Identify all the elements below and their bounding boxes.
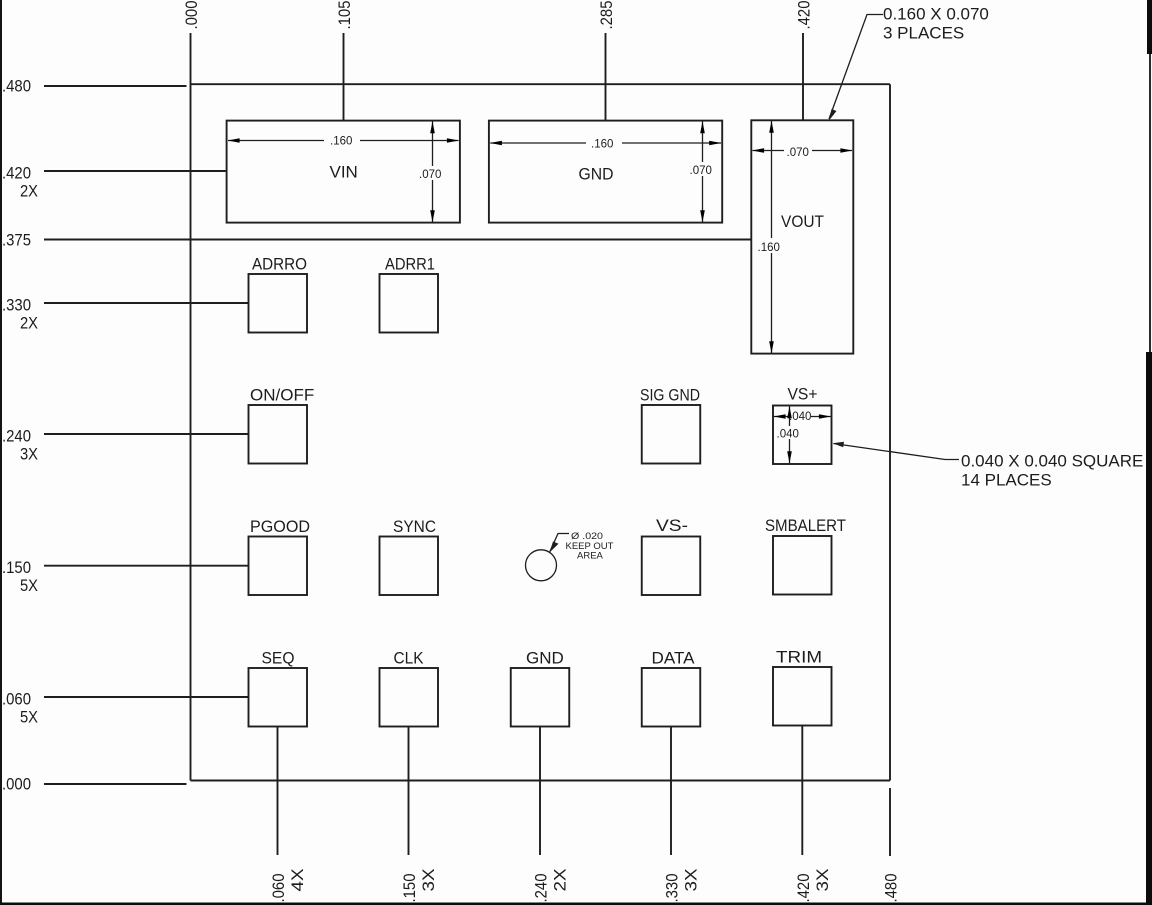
svg-text:3X: 3X: [20, 445, 38, 464]
svg-text:.160: .160: [330, 136, 352, 148]
node .420 top extension: [802, 33, 804, 120]
svg-text:.105: .105: [335, 1, 354, 30]
svg-text:.420: .420: [2, 164, 31, 183]
dimension .160 VOUT: [756, 121, 782, 354]
svg-text:.285: .285: [597, 1, 616, 30]
svg-text:2X: 2X: [20, 314, 38, 333]
dimension .070 GND: [688, 121, 715, 222]
svg-text:GND: GND: [579, 165, 614, 184]
pad SYNC: [380, 537, 439, 596]
board outline: [191, 33, 891, 781]
svg-text:SYNC: SYNC: [393, 517, 436, 536]
svg-text:.420: .420: [795, 1, 814, 30]
svg-text:SEQ: SEQ: [262, 649, 295, 668]
pad SIG GND: [642, 405, 701, 464]
svg-text:.060: .060: [269, 874, 288, 903]
svg-text:SMBALERT: SMBALERT: [765, 516, 846, 535]
node .480 left leader: [44, 85, 187, 87]
svg-text:.160: .160: [591, 139, 613, 151]
pad TRIM: [773, 667, 832, 726]
leader keep out: [550, 531, 614, 562]
node .000 bottom-left leader: [44, 783, 187, 785]
keep out circle: [526, 550, 557, 581]
svg-text:3X: 3X: [813, 869, 832, 892]
dimension .040 VS+ vertical: [776, 406, 799, 463]
pad DATA: [642, 668, 701, 727]
pad GND (bottom row): [511, 668, 570, 727]
svg-text:AREA: AREA: [577, 551, 604, 562]
node .060 bottom stem: [277, 726, 279, 855]
svg-text:.150: .150: [400, 874, 419, 903]
node .330 bottom stem: [670, 726, 672, 855]
svg-text:.000: .000: [182, 1, 201, 30]
svg-text:.070: .070: [690, 165, 712, 177]
svg-text:ADRR1: ADRR1: [385, 255, 435, 274]
svg-text:.160: .160: [758, 242, 780, 254]
svg-text:.480: .480: [2, 77, 31, 96]
svg-text:0.040 X 0.040 SQUARE: 0.040 X 0.040 SQUARE: [961, 452, 1143, 471]
svg-text:5X: 5X: [20, 576, 38, 595]
svg-text:PGOOD: PGOOD: [250, 517, 310, 536]
svg-text:.040: .040: [789, 411, 811, 423]
dimension .160 GND: [490, 136, 721, 151]
svg-text:.330: .330: [2, 296, 31, 315]
svg-text:TRIM: TRIM: [776, 648, 822, 667]
pad VS+: [773, 406, 832, 465]
pad GND: [489, 121, 722, 223]
pad PGOOD: [249, 537, 308, 596]
svg-text:.240: .240: [532, 874, 551, 903]
svg-text:VIN: VIN: [330, 163, 358, 182]
pad VOUT: [751, 120, 853, 353]
pad VIN: [227, 121, 460, 223]
svg-text:ON/OFF: ON/OFF: [250, 386, 314, 405]
svg-text:VS-: VS-: [656, 516, 688, 535]
node .330 left leader: [44, 302, 249, 304]
pad SEQ: [249, 668, 308, 727]
node .480 bottom stem: [889, 788, 891, 856]
node .105 top extension: [343, 33, 345, 121]
svg-text:CLK: CLK: [394, 649, 425, 668]
svg-text:2X: 2X: [20, 182, 38, 201]
node .285 top extension: [605, 33, 607, 121]
dimension .160 VIN: [228, 133, 459, 148]
svg-text:.420: .420: [794, 874, 813, 903]
svg-text:5X: 5X: [20, 708, 38, 727]
svg-text:.240: .240: [2, 427, 31, 446]
pad VS-: [642, 537, 701, 596]
pad ADRRO: [249, 274, 308, 333]
svg-text:.375: .375: [2, 231, 31, 250]
node .150 bottom stem: [408, 726, 410, 855]
svg-text:GND: GND: [526, 649, 564, 668]
svg-text:.480: .480: [882, 874, 901, 903]
node .150 left leader: [44, 565, 249, 567]
note 0.040 X 0.040 SQUARE 14 PLACES: [833, 442, 1144, 490]
svg-text:3 PLACES: 3 PLACES: [883, 24, 964, 43]
svg-text:.000: .000: [2, 775, 31, 794]
svg-text:.060: .060: [2, 690, 31, 709]
svg-text:14 PLACES: 14 PLACES: [961, 471, 1052, 490]
dimension .070 VOUT: [752, 144, 852, 159]
svg-text:.330: .330: [663, 874, 682, 903]
svg-text:.070: .070: [787, 147, 809, 159]
svg-text:ADRRO: ADRRO: [252, 255, 307, 274]
dimension .070 VIN: [417, 121, 444, 222]
pad ON/OFF: [249, 405, 308, 464]
node .420 left leader: [44, 170, 227, 172]
node .375 left leader: [44, 239, 752, 241]
pad ADRR1: [380, 274, 439, 333]
svg-text:3X: 3X: [419, 869, 438, 892]
svg-text:2X: 2X: [551, 869, 570, 892]
svg-text:.070: .070: [419, 169, 441, 181]
svg-text:.040: .040: [777, 429, 799, 441]
svg-text:VS+: VS+: [788, 385, 818, 404]
svg-text:4X: 4X: [288, 869, 307, 892]
svg-text:DATA: DATA: [652, 649, 696, 668]
node .060 left leader: [44, 696, 249, 698]
svg-text:0.160 X 0.070: 0.160 X 0.070: [883, 5, 989, 24]
pad SMBALERT: [773, 536, 832, 595]
svg-text:3X: 3X: [682, 869, 701, 892]
node .240 left leader: [44, 433, 249, 435]
node .420 bottom stem: [801, 725, 803, 855]
svg-text:.150: .150: [2, 558, 31, 577]
svg-text:VOUT: VOUT: [781, 212, 824, 231]
svg-text:SIG GND: SIG GND: [640, 386, 700, 405]
dimension .040 VS+ horizontal: [774, 410, 831, 424]
node .240 bottom stem: [539, 726, 541, 855]
pad CLK: [380, 668, 439, 727]
note 0.160 X 0.070 3 PLACES: [829, 5, 989, 121]
